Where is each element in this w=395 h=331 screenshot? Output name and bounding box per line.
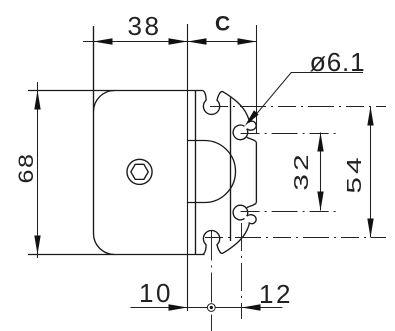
svg-text:54: 54 xyxy=(343,154,365,193)
arrow 54 top xyxy=(367,107,373,126)
svg-text:10: 10 xyxy=(139,278,173,308)
profile right wall xyxy=(255,142,257,202)
arrow 68 top xyxy=(34,91,40,110)
extension line C right xyxy=(256,25,258,133)
S-curve hole2 to right wall (mirror) xyxy=(247,203,257,208)
svg-text:38: 38 xyxy=(128,11,162,41)
bottom slot outline (mirror) xyxy=(202,215,256,255)
body left edge + extension for 38 dim xyxy=(93,26,95,234)
arrow 38 right xyxy=(169,38,188,44)
svg-text:68: 68 xyxy=(14,153,38,184)
svg-text:12: 12 xyxy=(259,279,293,309)
hole ø6.1 top xyxy=(233,125,248,140)
arrow 32 top xyxy=(317,133,323,152)
svg-text:C: C xyxy=(215,12,230,35)
clamp nose bulge xyxy=(187,141,235,203)
leader arrowhead xyxy=(245,110,259,126)
profile left edge xyxy=(195,91,197,255)
wire bottom edge line (extension + body bottom + profile bottom) xyxy=(28,254,205,256)
screw outer circle xyxy=(127,159,152,184)
profile inner wall line xyxy=(230,98,232,242)
top slot outline with cavity, hump and outer arc to hole notch xyxy=(202,90,256,130)
body top-left corner arc xyxy=(94,91,115,112)
hole ø6.1 bottom (mirror) xyxy=(233,205,248,220)
body right edge / long extension line xyxy=(187,24,189,311)
extension line hole center 12 dim xyxy=(241,223,243,319)
centerline slot top xyxy=(210,106,386,108)
centerline slot bottom xyxy=(205,237,386,239)
arrow 32 bottom xyxy=(317,192,323,211)
dimension line 38 and C xyxy=(83,41,257,43)
arrow C left xyxy=(188,38,207,44)
svg-text:ø6.1: ø6.1 xyxy=(310,47,366,77)
dimension line 54 xyxy=(370,107,372,238)
arrow 12 xyxy=(242,304,261,310)
arrow 68 bottom xyxy=(34,236,40,255)
datum point marker xyxy=(207,304,215,312)
wire top edge line (extension + body top + profile top) xyxy=(28,90,202,92)
screw hex socket xyxy=(131,164,148,179)
dimension line 68 xyxy=(37,82,39,258)
body bottom-left corner arc xyxy=(94,234,115,255)
dimension line 32 xyxy=(320,133,322,211)
centerline hole bottom xyxy=(241,211,340,213)
arrow C right xyxy=(238,38,257,44)
leader line for ø6.1 xyxy=(251,73,363,121)
arrow 54 bottom xyxy=(367,219,373,238)
S-curve hole1 to right wall xyxy=(247,137,257,142)
centerline slot bottom vertical xyxy=(211,231,213,331)
svg-text:32: 32 xyxy=(290,151,312,190)
dimension line 10 / 12 xyxy=(131,307,283,309)
arrow 10 xyxy=(169,304,188,310)
arrow 38 left xyxy=(94,38,113,44)
centerline hole top xyxy=(241,133,340,135)
